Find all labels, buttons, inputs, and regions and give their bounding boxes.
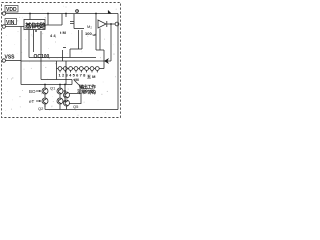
wire y50 right (96, 49, 104, 51)
svg-text:Q5: Q5 (73, 104, 79, 109)
VDD label (6, 7, 17, 13)
node junction (35, 30, 37, 32)
tap ticks (59, 70, 61, 72)
node on rail x66 (65, 13, 67, 15)
wire vertical x21 (20, 27, 22, 85)
VSS terminal (2, 59, 5, 62)
svg-text:VDD: VDD (6, 7, 17, 13)
svg-text:BO: BO (29, 89, 36, 94)
svg-text:Q2: Q2 (38, 106, 44, 111)
VIN label (6, 20, 15, 26)
label cmp (50, 33, 56, 38)
label extra (87, 73, 96, 79)
wire vertical x82 (81, 30, 83, 49)
wire x66 down from rail y61 (65, 61, 67, 85)
bottom supply rail (45, 109, 118, 111)
wire mid rail y61 (21, 60, 111, 62)
wire y79.5 (41, 79, 72, 81)
wire VSS right (6, 60, 22, 62)
wire rail drop x48 (47, 14, 49, 26)
wire vertical x70 low (69, 49, 71, 58)
background (0, 0, 123, 120)
label arrow mark (107, 9, 113, 14)
svg-text:五 M: 五 M (87, 73, 96, 79)
node out (110, 23, 112, 25)
transistor M1 stub (65, 14, 67, 18)
wire vertical x111 (110, 24, 112, 61)
transistor Q3 (57, 88, 63, 94)
wire vertical x33.5 (33, 30, 35, 53)
wire mid rail y57.5 (29, 57, 96, 59)
wire block rail y84.5 (21, 84, 72, 86)
reference block U1 (24, 20, 45, 30)
svg-text:Φ: Φ (75, 9, 79, 15)
transistor Q1 (42, 88, 48, 94)
dashed enclosure border (2, 3, 121, 118)
terminal VO (115, 22, 119, 26)
VIN terminal (2, 25, 5, 28)
wire top VDD rail (6, 13, 118, 15)
node x45 (44, 84, 46, 86)
arrow BO2 (36, 90, 41, 92)
svg-text:100: 100 (85, 31, 92, 36)
node x65 (64, 84, 66, 86)
buffer amp A1 (98, 20, 106, 28)
pointer line to note (74, 80, 80, 86)
wire box top to VDD rail (29, 14, 31, 20)
label BO2 (29, 89, 36, 94)
wire VIN to ref box (6, 26, 25, 28)
svg-text:基准电路: 基准电路 (24, 22, 47, 30)
wire x72 drop (71, 80, 73, 85)
svg-text:Q1: Q1 (50, 86, 56, 91)
transistor Q2 (42, 98, 48, 104)
node on rail above ref box (29, 13, 31, 15)
node x60 (59, 84, 61, 86)
tap numbers (59, 73, 87, 78)
diode bar (106, 21, 108, 27)
wire vertical x100 (99, 29, 101, 51)
note text line2 (77, 89, 96, 96)
VSS label (5, 55, 16, 61)
wire vertical x62 mid (62, 50, 64, 61)
stub Q2 to rail (44, 104, 46, 110)
svg-text:OC100: OC100 (34, 54, 50, 60)
svg-text:eT: eT (29, 99, 35, 104)
label M2 (87, 24, 92, 29)
wire amp out (107, 23, 115, 25)
mark (63, 47, 66, 49)
wire vertical x41 (40, 31, 42, 80)
wire vertical x29 (28, 30, 30, 58)
wire box out up to rail (61, 14, 63, 26)
label 100 (85, 31, 92, 36)
wire vertical x104 (103, 50, 105, 69)
label Q5 (73, 104, 79, 109)
svg-text:t M: t M (60, 30, 66, 35)
label Q2 (38, 106, 44, 111)
wire chain feed (56, 61, 58, 80)
feedback loop rect (69, 94, 81, 104)
VIN label box (5, 19, 17, 25)
wire vertical x78.5 (78, 30, 80, 49)
label 4m (73, 77, 79, 82)
wire box output right (45, 24, 62, 26)
svg-text:VIN: VIN (6, 20, 15, 26)
VDD label box (5, 6, 18, 13)
note text line1 (79, 84, 96, 91)
node on rail x96 (95, 13, 97, 15)
svg-text:平常时(略): 平常时(略) (77, 89, 96, 96)
transistor Q5b (64, 100, 70, 106)
M1 drain wire (73, 14, 75, 29)
wire vertical x96 (95, 14, 97, 51)
stub Q4 to rail (59, 104, 61, 110)
transistor Q4 (57, 98, 63, 104)
svg-text:+M: +M (73, 77, 79, 82)
label t M (60, 30, 66, 35)
wire y49 left (70, 48, 82, 50)
svg-text:VSS: VSS (5, 55, 16, 61)
M1 source wire (74, 28, 84, 30)
M1 gate bars (70, 22, 74, 24)
label ut (93, 32, 97, 37)
label phi (75, 9, 79, 15)
node on rail x48 (47, 13, 49, 15)
right supply rail (117, 14, 119, 110)
arrowhead at tap select (104, 58, 109, 64)
VDD terminal (2, 12, 5, 15)
svg-text:M₂: M₂ (87, 24, 92, 29)
label OC100 (34, 54, 50, 60)
arrow eT1 (36, 100, 41, 102)
scan speckle noise (3, 6, 117, 116)
transistor Q5a (64, 92, 70, 98)
stub to chain (57, 68, 59, 70)
label Q1 (50, 86, 56, 91)
wire column x65 (63, 85, 65, 92)
label eT1 (29, 99, 35, 104)
resistor tap chain R1..R8 (58, 67, 62, 71)
